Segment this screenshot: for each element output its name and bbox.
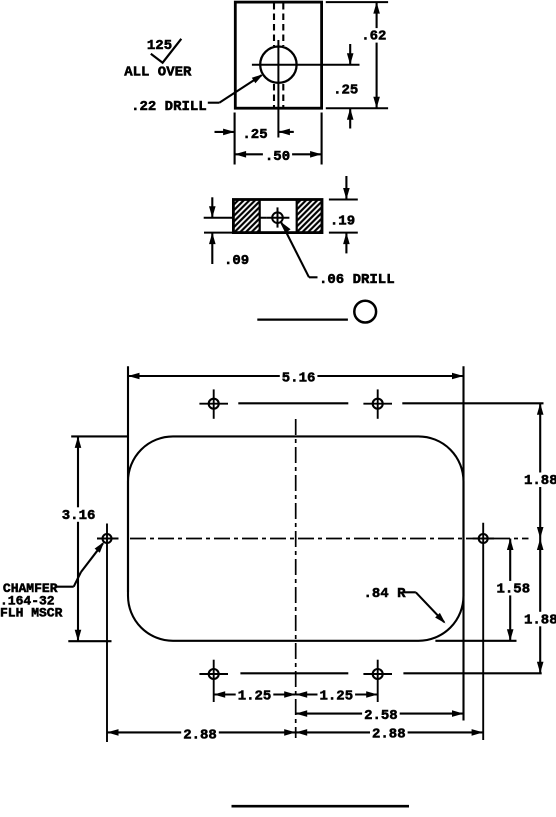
leader .22 DRILL [208, 74, 263, 103]
svg-text:.50: .50 [265, 149, 290, 165]
label .06 DRILL [319, 272, 395, 288]
side view circle [354, 301, 376, 323]
label CHAMFER [0, 581, 63, 620]
svg-text:1.88: 1.88 [524, 612, 556, 628]
vertical centerline [295, 419, 297, 738]
svg-text:FLH MSCR: FLH MSCR [0, 605, 63, 620]
extension line panel right [462, 366, 464, 720]
label .84 R [364, 586, 407, 602]
extension line bottom right [326, 107, 388, 109]
vertical centerline of hole [277, 40, 279, 138]
svg-text:.25: .25 [242, 127, 267, 143]
hidden line left (drill hole) [273, 3, 275, 107]
extension side hole right [482, 523, 484, 740]
label ALL OVER [124, 64, 192, 80]
view centerline segment [257, 318, 348, 320]
dimension 2.88 left [107, 727, 296, 744]
svg-text:.62: .62 [361, 29, 386, 45]
section centerline horizontal [204, 217, 267, 219]
extension line panel left [127, 366, 129, 592]
section outline [233, 200, 322, 233]
bottom hole left [199, 660, 228, 702]
extension line bottom right of block [321, 113, 323, 165]
side hole right [473, 534, 494, 543]
label .22 DRILL [131, 99, 207, 115]
leader CHAMFER [55, 542, 105, 587]
bottom holes line to right [403, 672, 541, 674]
svg-text:.19: .19 [330, 214, 355, 230]
section inner wall left [259, 200, 261, 233]
extension side hole left [106, 524, 108, 743]
svg-text:1.25: 1.25 [238, 689, 272, 705]
svg-text:2.58: 2.58 [364, 708, 398, 724]
svg-text:.06 DRILL: .06 DRILL [319, 272, 395, 288]
top hole right [363, 389, 392, 418]
horizontal centerline [130, 538, 529, 540]
svg-text:ALL OVER: ALL OVER [124, 64, 192, 80]
svg-text:1.58: 1.58 [496, 581, 530, 597]
dimension 1.25 right [296, 688, 378, 705]
small hole crosshair [267, 207, 290, 227]
surface finish mark 125 [147, 38, 181, 63]
dimension .19 [330, 176, 355, 253]
block outline (top view) [235, 2, 321, 108]
svg-text:.84 R: .84 R [364, 586, 407, 602]
dimension 2.58 [296, 707, 464, 724]
hidden line right (drill hole) [282, 3, 284, 107]
svg-text:1.25: 1.25 [319, 689, 353, 705]
svg-text:2.88: 2.88 [372, 727, 406, 743]
svg-text:3.16: 3.16 [62, 508, 96, 524]
svg-text:5.16: 5.16 [282, 370, 316, 386]
svg-text:.09: .09 [224, 253, 249, 269]
leader .84 R [404, 592, 446, 623]
horizontal centerline of hole [252, 64, 360, 66]
dimension 1.25 left [214, 688, 296, 705]
dimension 2.88 right [296, 726, 483, 743]
panel cutout outline [128, 436, 464, 640]
dimension .50 [235, 149, 322, 166]
panel bottom extension right [435, 640, 516, 642]
dimension .25 right [333, 44, 358, 129]
dimension .09 [209, 197, 249, 269]
drill hole circle .22 [260, 46, 296, 82]
drawing frame line bottom [232, 805, 410, 808]
dimension .62 [359, 2, 388, 108]
section hatched wall left [233, 200, 259, 233]
top holes line to right [402, 402, 543, 404]
dimension 1.88 upper [522, 403, 556, 538]
svg-text:1.88: 1.88 [524, 473, 556, 489]
section bottom extension left [204, 232, 233, 234]
section inner wall right [296, 200, 298, 233]
svg-text:2.88: 2.88 [183, 727, 217, 743]
side hole left (chamfer) [97, 534, 119, 543]
section extension top right [329, 199, 358, 201]
extension line top right [326, 1, 388, 3]
top holes connecting line [238, 402, 348, 404]
small drill hole .06 [272, 212, 283, 223]
extension line bottom left of block [234, 113, 236, 165]
svg-text:125: 125 [147, 38, 172, 54]
section hatched wall right [297, 200, 322, 233]
bottom hole right [363, 660, 392, 702]
section extension bottom right [329, 232, 358, 234]
top hole left [199, 389, 228, 418]
bottom holes connecting line [240, 672, 348, 674]
dimension .25 bottom [215, 127, 294, 143]
dimension 1.58 [495, 539, 533, 641]
leader .06 DRILL [281, 222, 318, 277]
svg-text:.22 DRILL: .22 DRILL [131, 99, 207, 115]
svg-text:.25: .25 [333, 83, 358, 99]
extension 3.16 top [71, 435, 129, 437]
extension 3.16 bottom [68, 640, 111, 642]
dimension 1.88 lower [522, 539, 556, 674]
dimension 3.16 [60, 436, 98, 641]
dimension 5.16 [128, 370, 464, 387]
